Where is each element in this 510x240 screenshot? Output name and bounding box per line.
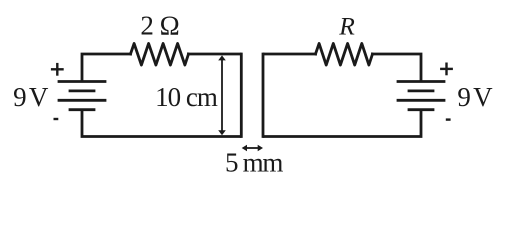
resistor R zigzag: [316, 44, 373, 66]
wire: left circuit bottom, left plate to battery negative lead: [82, 111, 240, 137]
wire: left circuit top, resistor to left plate: [189, 53, 241, 56]
svg-text:9 V: 9 V: [457, 82, 493, 112]
svg-text:9 V: 9 V: [13, 82, 49, 112]
battery B2 9V (right): two cells, long/short plates: [398, 82, 444, 110]
wire: left circuit top-left, battery positive lead up and right to resistor: [82, 54, 131, 81]
dimension arrow: 5 mm gap, horizontal double-headed: [242, 145, 263, 152]
svg-text:R: R: [338, 11, 355, 40]
svg-text:2 Ω: 2 Ω: [140, 11, 179, 41]
wire: right circuit top, resistor to battery positive lead down: [373, 54, 422, 81]
svg-text:10 cm: 10 cm: [155, 82, 218, 112]
capacitor plate: left plate: [240, 54, 243, 137]
minus sign of right battery: [446, 118, 451, 120]
wire: right circuit bottom, battery negative lead to right plate: [264, 111, 421, 137]
wire: right circuit top, right plate to resistor: [264, 53, 315, 56]
minus sign of left battery: [54, 118, 59, 120]
svg-text:5 mm: 5 mm: [225, 148, 283, 178]
dimension arrow: 10 cm plate height, vertical double-headed: [218, 55, 226, 135]
capacitor plate: right plate: [262, 54, 265, 137]
battery B1 9V (left): two cells, long/short plates: [59, 82, 105, 110]
resistor R1 2 ohm zigzag: [131, 44, 189, 66]
plus sign of right battery: [440, 63, 453, 76]
plus sign of left battery: [51, 63, 64, 76]
